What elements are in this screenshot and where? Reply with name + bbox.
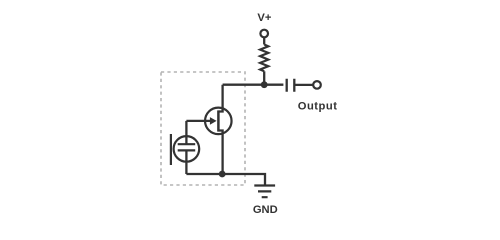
dashed box (mic capsule boundary) <box>161 72 245 185</box>
capacitor C1 <box>287 79 295 92</box>
wire JFET source down <box>218 131 222 175</box>
wire V+ to resistor <box>263 37 265 44</box>
wire resistor to node <box>263 71 265 84</box>
microphone element MK1 circle <box>174 136 200 162</box>
transistor Q1 gate wire <box>186 120 211 122</box>
wire bottom rail <box>186 174 265 186</box>
wire capacitor to output terminal <box>294 84 313 86</box>
transistor Q1 channel bar <box>217 110 220 131</box>
node junction dot <box>261 81 268 88</box>
svg-text:V+: V+ <box>257 12 271 24</box>
svg-text:GND: GND <box>253 204 278 216</box>
terminal Output <box>313 81 321 89</box>
resistor R1 <box>260 45 268 72</box>
wire capsule bottom down <box>185 150 187 174</box>
transistor Q1 JFET circle <box>205 108 232 134</box>
microphone element bottom plate <box>178 149 196 151</box>
terminal V+ <box>260 30 268 38</box>
microphone element top plate <box>178 143 196 145</box>
ground <box>254 186 275 198</box>
microphone element electret bar <box>170 134 172 165</box>
wire drain to node to capacitor <box>223 84 284 86</box>
transistor Q1 gate arrowhead <box>210 117 217 125</box>
wire node to JFET drain <box>218 85 222 112</box>
wire gate corner down to capsule <box>185 121 187 144</box>
node source junction dot <box>219 171 226 178</box>
svg-text:Output: Output <box>298 101 338 113</box>
